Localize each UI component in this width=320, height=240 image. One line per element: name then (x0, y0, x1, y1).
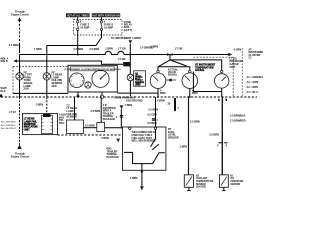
svg-text:LT GN: LT GN (118, 58, 126, 61)
node: small down arrow near fuel box (116, 139, 120, 143)
sensor B1 (coolant temp) (184, 175, 193, 191)
node: fuse/relay box note (124, 21, 133, 32)
svg-text:2.5 BRN/BLK: 2.5 BRN/BLK (230, 114, 246, 117)
wire: lamp feed from arrow down through bus (129, 44, 131, 74)
wire: gauge feed drop from bus (168, 53, 172, 60)
wire: fuse 1 down to main bus (77, 31, 79, 55)
right dashed box edge (193, 57, 233, 97)
svg-text:1 BRN: 1 BRN (125, 104, 133, 107)
svg-text:Engine Control: Engine Control (11, 14, 29, 17)
node: dashed separator before legend (241, 48, 243, 97)
wire: dashed ground bus across (1, 96, 257, 98)
node: text above connector C (103, 104, 116, 121)
svg-text:COOLANT: COOLANT (196, 177, 208, 180)
svg-text:0.5 BRN: 0.5 BRN (74, 48, 84, 51)
node: legend wire colors (247, 76, 265, 94)
wire: bar to fuse 2 (101, 17, 103, 21)
svg-text:(GAUGE): (GAUGE) (196, 186, 206, 189)
svg-text:HOT WITH IGNITION ON: HOT WITH IGNITION ON (92, 14, 120, 17)
node: sensor B1 text (196, 175, 214, 188)
svg-text:G05 GROUND: G05 GROUND (126, 100, 143, 103)
node: junction fuse1/bus (77, 54, 79, 56)
node: Through Engine Ground text (11, 152, 30, 158)
svg-text:UNIT: UNIT (24, 128, 30, 131)
svg-text:USED ONLY FOR A: USED ONLY FOR A (132, 134, 153, 137)
node: HOT WITH IGNITION ON label (92, 13, 120, 17)
svg-text:LT GN/RED: LT GN/RED (140, 47, 153, 50)
svg-text:1 BRN: 1 BRN (105, 47, 113, 50)
gauge G3 (fuel gauge) (150, 70, 166, 98)
svg-text:10 AMP: 10 AMP (80, 26, 89, 29)
wire: diagonal to gauge header bus (158, 60, 187, 67)
node: bus arrowhead right (228, 53, 232, 57)
wire: gauge G5 bottom loop (193, 72, 221, 92)
node: sensor B2 text (231, 175, 244, 185)
lamp E1 (LT front park/turn) (16, 73, 23, 80)
svg-text:1 BRN: 1 BRN (36, 103, 44, 106)
svg-text:BRN: BRN (192, 92, 198, 95)
wire: lamp E4 down to ground label (129, 81, 131, 96)
svg-text:TEMPERATURE: TEMPERATURE (196, 180, 214, 183)
node: lamp E2 text (52, 71, 63, 88)
svg-text:2.5 BRN: 2.5 BRN (148, 109, 158, 112)
node: left edge label 2 (1, 87, 8, 93)
node: lamp E4 text (136, 73, 143, 84)
svg-text:A3 = BLK/WHT: A3 = BLK/WHT (1, 127, 17, 130)
wire: fuel sender feed (155, 97, 157, 127)
node: ground point label G1 (114, 96, 143, 102)
node: lamp E1 text (24, 71, 34, 91)
svg-text:5 BRN: 5 BRN (130, 177, 138, 180)
svg-text:A3 = BRN: A3 = BRN (247, 86, 259, 89)
svg-text:UNIT: UNIT (135, 84, 141, 87)
wire: bar to fuse 1 (77, 17, 79, 21)
svg-text:BRN: BRN (160, 92, 166, 95)
wire: gauge top bus (158, 67, 190, 71)
svg-text:UNIT: UNIT (230, 66, 236, 69)
svg-text:A1 = WHT/BLK: A1 = WHT/BLK (1, 121, 16, 124)
wire: U4 ground lead (130, 170, 144, 190)
fuse F1 (77, 20, 90, 30)
gauge G5 (oil pressure) (215, 70, 229, 88)
wire: vertical through lamp 2 (46, 55, 48, 73)
svg-text:SENSOR: SENSOR (196, 184, 206, 186)
wire: cluster ground lead with up arrow (76, 92, 80, 97)
lamp E3 (cluster small lamp) (85, 82, 91, 88)
svg-text:4 BRN: 4 BRN (157, 100, 165, 103)
relay box U3 (67, 97, 84, 134)
left lamp assembly dashed box (13, 67, 68, 94)
node: dense module label left of gauge1 (134, 71, 146, 86)
svg-text:GAUGE: GAUGE (195, 69, 205, 72)
instrument cluster box U1 (68, 65, 117, 92)
svg-text:OIL: OIL (231, 178, 235, 180)
svg-text:Engine Ground: Engine Ground (11, 156, 30, 159)
svg-text:A2 = GRN: A2 = GRN (247, 81, 259, 84)
svg-text:1 BRN: 1 BRN (34, 48, 42, 51)
svg-text:0.5 BRN: 0.5 BRN (91, 110, 101, 113)
svg-text:TO INSTRUMENT LAMPS: TO INSTRUMENT LAMPS (111, 37, 141, 40)
svg-text:PKG: PKG (59, 122, 64, 125)
wire: coolant sensor feed (180, 96, 200, 175)
node: sensor text above relay box (67, 104, 78, 118)
node: text block between gauges (168, 68, 179, 76)
svg-text:SENSOR: SENSOR (67, 116, 78, 119)
svg-text:5 BRN: 5 BRN (101, 137, 109, 140)
svg-text:PACKAGE: PACKAGE (103, 118, 116, 121)
wire: oil sender feed (thick) (209, 96, 245, 175)
svg-text:0.5 BRN: 0.5 BRN (9, 44, 19, 47)
wire: dashed boundary line (58, 134, 123, 136)
wire: cluster to gauge ground link (117, 92, 158, 94)
node: left edge label 1 (1, 57, 9, 63)
svg-text:A4 = BLU: A4 = BLU (247, 91, 258, 94)
node: Through Engine Control label (11, 11, 29, 17)
wire: bottom edge of lamp box (13, 92, 68, 94)
svg-text:2.5: 2.5 (172, 79, 176, 82)
wire: vertical to ground arrow (121, 109, 123, 128)
wire: main bus B1 with crossover humps (20, 51, 169, 54)
node: HOT AT ALL TIMES label (66, 13, 90, 17)
node: left vertical ground arrow (18, 144, 22, 148)
svg-text:A2 = GRY/BLK: A2 = GRY/BLK (1, 124, 16, 127)
wire: connector C to down wire (105, 127, 123, 129)
svg-text:LT GN: LT GN (175, 48, 183, 51)
wire: feed to right gauge (170, 60, 222, 70)
gauge G1 (left, clock) (70, 73, 85, 88)
svg-text:1 BRN: 1 BRN (180, 146, 188, 149)
svg-text:SENSOR: SENSOR (231, 184, 241, 186)
wire: U3 to connector C (84, 127, 97, 129)
svg-text:PACKAGE: PACKAGE (107, 156, 120, 159)
wire: cluster lead to ring terminal (100, 92, 103, 98)
node: junction lampwire/bus (129, 54, 131, 56)
node: TO INSTRUMENT LAMPS (111, 37, 141, 44)
fuse box dashed outline (74, 20, 123, 35)
svg-text:LT GY: LT GY (9, 111, 17, 114)
svg-text:B: B (225, 98, 227, 101)
fuse F2 (100, 20, 113, 30)
svg-text:2.5 BRN: 2.5 BRN (190, 120, 200, 123)
wire: B2 line with left arrow (13, 59, 123, 64)
node: labels near fuel sender wire (147, 109, 158, 126)
wire: left vertical through lamp 1 (19, 55, 21, 73)
connector/monitor box U2 (23, 114, 58, 135)
node: black label AT INSTRUMENT (195, 64, 216, 73)
svg-text:LT INSTRUMENT CLUSTER PRINTED: LT INSTRUMENT CLUSTER PRINTED CIRCUIT BO… (64, 68, 122, 71)
sensor B2 (oil pressure sender) (219, 175, 228, 191)
svg-text:BLK: BLK (1, 90, 6, 93)
svg-text:PRESSURE: PRESSURE (231, 181, 244, 183)
wire: fuse 2 down with diagonal (96, 31, 102, 46)
svg-text:0.5 BRN: 0.5 BRN (85, 125, 95, 128)
gauge G2 (right, with needle) (92, 70, 109, 87)
node: legend header (234, 48, 266, 59)
svg-text:A: A (218, 98, 220, 101)
node: text block OIL PRESSURE GAUGE (230, 57, 244, 68)
svg-text:THIS CONNECTOR IS: THIS CONNECTOR IS (132, 132, 156, 134)
svg-text:FUEL LEVEL TEST: FUEL LEVEL TEST (132, 138, 153, 140)
node: cluster header label (64, 67, 122, 71)
node: labels A2 A4 (116, 104, 132, 119)
svg-text:2.5 BRN: 2.5 BRN (209, 133, 219, 136)
svg-text:A1 = GRN/BLK: A1 = GRN/BLK (247, 76, 264, 79)
node: black connector label on B2 (123, 62, 130, 66)
lamp E2 (LT rear) (43, 73, 50, 80)
svg-text:21W: 21W (52, 85, 58, 88)
connector C1 box (97, 98, 105, 131)
svg-text:4 GRN: 4 GRN (234, 49, 242, 52)
wire: dashed vertical from engine control arrow down left side (9, 17, 22, 53)
node: text right of U2 (59, 114, 66, 125)
node: black label right of gauge G3 (169, 79, 172, 82)
node: note text left of fuel box (107, 148, 120, 159)
svg-text:0.5 BRN: 0.5 BRN (90, 48, 100, 51)
gauge G4 (temp gauge) (182, 70, 198, 98)
lamp E4 (indicator on feed wire) (127, 74, 134, 81)
svg-text:21W: 21W (24, 88, 30, 91)
node: circuit 30 bar (168, 98, 180, 111)
fuel sender box U4 (123, 127, 166, 170)
svg-text:SIGNAL: SIGNAL (168, 74, 178, 77)
svg-text:LT GN: LT GN (118, 47, 126, 50)
svg-text:(LEFT): (LEFT) (124, 29, 132, 32)
wire: branch L1 to left rear lamp (47, 46, 97, 55)
node: label right of U4 (168, 128, 179, 139)
node: down arrow label (120, 105, 124, 109)
svg-text:2.5 BRN/RED: 2.5 BRN/RED (230, 119, 246, 122)
node: legend left (1, 121, 17, 130)
svg-text:SENSOR: SENSOR (168, 136, 179, 139)
svg-text:10 AMP: 10 AMP (104, 26, 113, 29)
svg-text:HOT AT ALL TIMES: HOT AT ALL TIMES (67, 14, 89, 17)
svg-text:W/S B: W/S B (1, 60, 8, 63)
